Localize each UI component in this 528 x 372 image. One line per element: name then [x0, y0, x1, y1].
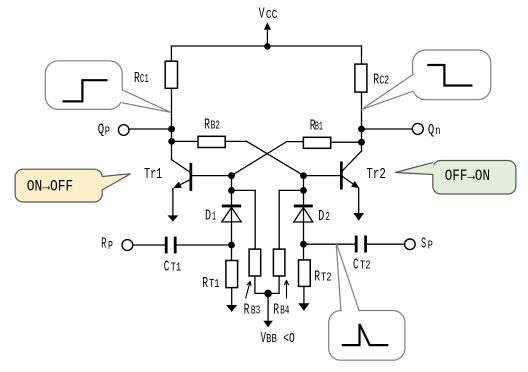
wire RT1 bottom lead: [231, 288, 233, 305]
terminal Qp: [118, 125, 129, 136]
wire Rp lead left: [133, 244, 165, 246]
Vcc junction dot: [264, 43, 271, 50]
resistor RB2: [198, 136, 225, 147]
svg-text:R: R: [373, 71, 379, 88]
transistor Q1 emitter arrowhead: [173, 182, 182, 189]
wire Sp lead right: [367, 243, 405, 245]
wire left collector branch lower: [171, 88, 173, 159]
diode D1 cathode bar: [222, 205, 241, 208]
node Qp junction dots: [168, 126, 175, 133]
wire RB4 riser horizontal: [279, 189, 303, 191]
resistor RT1: [226, 261, 238, 288]
callout bubble step-down waveform (top-right): [361, 50, 490, 110]
terminal Sp: [405, 239, 416, 250]
svg-text:2: 2: [325, 211, 330, 224]
svg-text:C: C: [353, 257, 359, 274]
svg-text:R: R: [273, 302, 279, 319]
wire RB2 left lead: [172, 140, 198, 142]
wire cross-couple RB1 to Tr1 base: [232, 142, 287, 176]
svg-text:S: S: [421, 235, 426, 252]
svg-text:T2: T2: [321, 271, 332, 285]
svg-text:OFF→ON: OFF→ON: [445, 167, 490, 185]
wire Tr2 collector diagonal: [342, 151, 362, 171]
node Tr1 base junction dots: [228, 172, 235, 179]
wire Vcc stem: [266, 30, 268, 47]
svg-text:P: P: [108, 240, 113, 253]
transistor Q2 emitter arrowhead: [351, 181, 360, 188]
wire cross-couple RB2 to Tr2 base: [247, 141, 304, 175]
svg-text:Q: Q: [428, 122, 434, 139]
ground arrow Tr2 emitter: [353, 213, 364, 221]
ground arrow RT1: [226, 305, 237, 312]
capacitor CT2 plates: [355, 236, 358, 253]
wire Sp lead left: [304, 243, 355, 245]
diode D1 triangle: [222, 207, 241, 222]
resistor RB1: [303, 137, 330, 148]
resistor RC1: [165, 61, 177, 88]
svg-text:ON→OFF: ON→OFF: [27, 178, 73, 196]
callout box OFF-to-ON (right): [395, 161, 516, 195]
svg-text:C2: C2: [379, 74, 389, 87]
transistor Q2 base bar: [340, 162, 343, 190]
wire D1 column: [231, 176, 233, 245]
svg-text:R: R: [101, 236, 106, 253]
node CT1 junction dot: [228, 242, 235, 249]
svg-text:R: R: [202, 275, 208, 292]
svg-text:P: P: [105, 126, 110, 139]
callout box ON-to-OFF (left): [15, 169, 130, 202]
svg-text:CC: CC: [266, 9, 278, 22]
svg-text:B1: B1: [315, 121, 323, 134]
svg-text:C1: C1: [140, 73, 149, 86]
wire RB2 right lead: [225, 140, 247, 142]
svg-text:T1: T1: [209, 277, 220, 291]
svg-text:V: V: [261, 330, 266, 347]
svg-text:BB: BB: [266, 333, 277, 346]
capacitor CT1 plates: [165, 237, 168, 254]
resistor RB3: [249, 249, 261, 276]
svg-text:Q: Q: [98, 122, 104, 139]
callout bubble step-up waveform (top-left): [45, 61, 170, 113]
wire RB3 riser horizontal: [232, 189, 256, 191]
node VBB junction dot: [264, 290, 272, 298]
svg-text:C: C: [164, 258, 170, 275]
wire RT1 top lead: [231, 245, 233, 261]
svg-text:B3: B3: [251, 305, 260, 318]
wire Rp lead right: [177, 244, 232, 246]
ground arrow RT2: [298, 303, 309, 311]
svg-text:Tr2: Tr2: [366, 166, 385, 183]
pointer arrow to RB4: [286, 281, 288, 299]
wire D2 column: [303, 176, 305, 245]
wire Tr1 base lead: [192, 175, 232, 177]
svg-text:1: 1: [212, 210, 216, 223]
svg-text:<O: <O: [283, 331, 295, 347]
svg-text:P: P: [428, 240, 433, 253]
terminal Qn: [412, 123, 423, 134]
svg-text:T1: T1: [171, 261, 182, 275]
svg-text:n: n: [435, 125, 440, 138]
wire Tr2 emitter diagonal: [343, 177, 355, 185]
Vcc supply arrow: [264, 22, 271, 29]
node Tr2 base junction dots: [300, 172, 307, 179]
callout bubble pulse waveform (bottom-right): [329, 243, 405, 361]
node CT2 junction dot: [300, 241, 307, 248]
wire VBB stem: [267, 293, 269, 320]
svg-text:D: D: [318, 208, 324, 225]
wire Tr2 base lead: [304, 175, 341, 177]
wire RB4 riser vertical: [278, 190, 280, 249]
wire right collector branch lower: [361, 92, 363, 151]
wire Qp lead: [129, 128, 171, 130]
transistor Q1 base bar: [190, 163, 193, 191]
wire RB1 left lead: [287, 141, 304, 143]
resistor RT2: [299, 260, 311, 287]
svg-text:R: R: [204, 116, 210, 133]
wire Tr1 emitter stem: [172, 189, 174, 216]
svg-text:R: R: [314, 269, 320, 286]
wire Tr2 emitter stem: [358, 189, 360, 214]
svg-text:T2: T2: [360, 259, 371, 273]
VBB supply arrow: [263, 321, 273, 328]
resistor RB4: [273, 249, 285, 276]
wire Tr1 collector diagonal: [172, 160, 191, 173]
wire RT2 bottom lead: [303, 286, 305, 303]
wire Qn lead: [362, 128, 413, 130]
diode D2 cathode bar: [294, 205, 313, 208]
svg-text:R: R: [244, 302, 250, 319]
wire RB3 riser vertical: [254, 190, 256, 249]
ground arrow Tr1 emitter: [168, 215, 179, 221]
wire right collector branch upper: [361, 46, 363, 64]
svg-text:B4: B4: [280, 305, 289, 318]
wire Tr1 emitter diagonal: [178, 180, 191, 186]
svg-text:B2: B2: [211, 120, 220, 133]
terminal Rp: [122, 240, 133, 251]
svg-text:Tr1: Tr1: [144, 166, 162, 183]
diode D2 triangle: [294, 207, 313, 222]
svg-text:V: V: [259, 6, 265, 23]
wire RB1 right lead: [331, 141, 362, 143]
wire RT2 top lead: [303, 244, 305, 260]
wire RB3 bottom lead: [255, 276, 268, 293]
pointer arrow to RB3: [246, 282, 250, 299]
node Qn junction dots: [358, 126, 365, 133]
wire left collector branch upper: [170, 46, 172, 61]
wire RB4 bottom lead: [268, 276, 279, 293]
resistor RC2: [355, 64, 367, 92]
svg-text:D: D: [205, 207, 211, 224]
wire top rail Vcc: [171, 45, 361, 47]
